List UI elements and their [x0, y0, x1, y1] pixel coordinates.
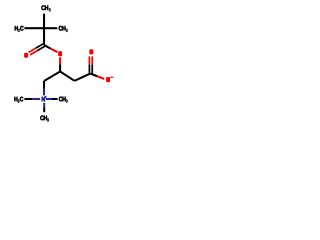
- label H3C (left N-methyl): [14, 97, 17, 101]
- label N+ (quaternary ammonium nitrogen): [42, 97, 45, 101]
- wire: bond C3-C2': [60, 72, 74, 81]
- label CH3 (top methyl): [41, 5, 44, 10]
- wire: bond Oester-C3, red half: [59, 57, 61, 64]
- wire: C1'=O carboxylate double bond, red halves: [88, 56, 90, 64]
- wire: bond H3C(left)-Cquat: [24, 27, 44, 29]
- label O (carbonyl oxygen, double-bonded): [24, 53, 28, 58]
- wire: bond C2-N, black half: [43, 81, 45, 88]
- wire: C=O ester carbonyl double bond, black halves: [36, 44, 43, 48]
- label CH3 (bottom N-methyl): [40, 116, 43, 121]
- wire: bond CH3(top)-Cquat: [43, 14, 45, 29]
- wire: C1'=O carboxylate double bond, black halves: [88, 65, 90, 73]
- wire: bond Oester-C3, black half: [59, 64, 61, 71]
- wire: bond N-CH3 (right), blue half: [46, 98, 52, 100]
- label O (ester oxygen): [58, 51, 62, 56]
- wire: bond C3-C2: [44, 72, 60, 82]
- charge plus on N: [45, 96, 47, 98]
- charge minus on O: [110, 77, 113, 78]
- wire: bond Ccarbonyl-Oester, red half: [51, 49, 58, 53]
- wire: bond C1'-Ominus, red half: [97, 76, 104, 79]
- wire: bond H3C-N (left), blue half: [32, 98, 40, 100]
- wire: bond N-CH3 (bottom), blue half: [43, 103, 45, 108]
- wire: bond Cquat-CH3(right): [44, 27, 57, 29]
- wire: C=O ester carbonyl double bond, red halves: [28, 48, 35, 52]
- wire: bond N-CH3 (bottom), black half: [43, 108, 45, 113]
- wire: bond H3C-N (left), black half: [24, 98, 32, 100]
- wire: bond N-CH3 (right), black half: [52, 98, 58, 100]
- wire: bond C2'-C1': [75, 74, 91, 81]
- label CH3 (right N-methyl): [59, 97, 62, 102]
- chemical structure diagram: pivaloyl-L-carnitine (skeletal formula, PubChem style): [0, 0, 130, 130]
- label H3C (left methyl of t-butyl): [15, 26, 18, 30]
- wire: bond Ccarbonyl-Oester, black half: [44, 45, 51, 49]
- wire: bond Cquat-Ccarbonyl: [43, 28, 45, 45]
- label O (carboxylate double-bonded oxygen): [89, 49, 93, 54]
- wire: bond C2-N, blue half: [43, 88, 45, 95]
- label O- (carboxylate anionic oxygen): [106, 77, 110, 82]
- wire: bond C1'-Ominus, black half: [90, 74, 97, 77]
- label CH3 (right methyl of t-butyl): [59, 26, 62, 31]
